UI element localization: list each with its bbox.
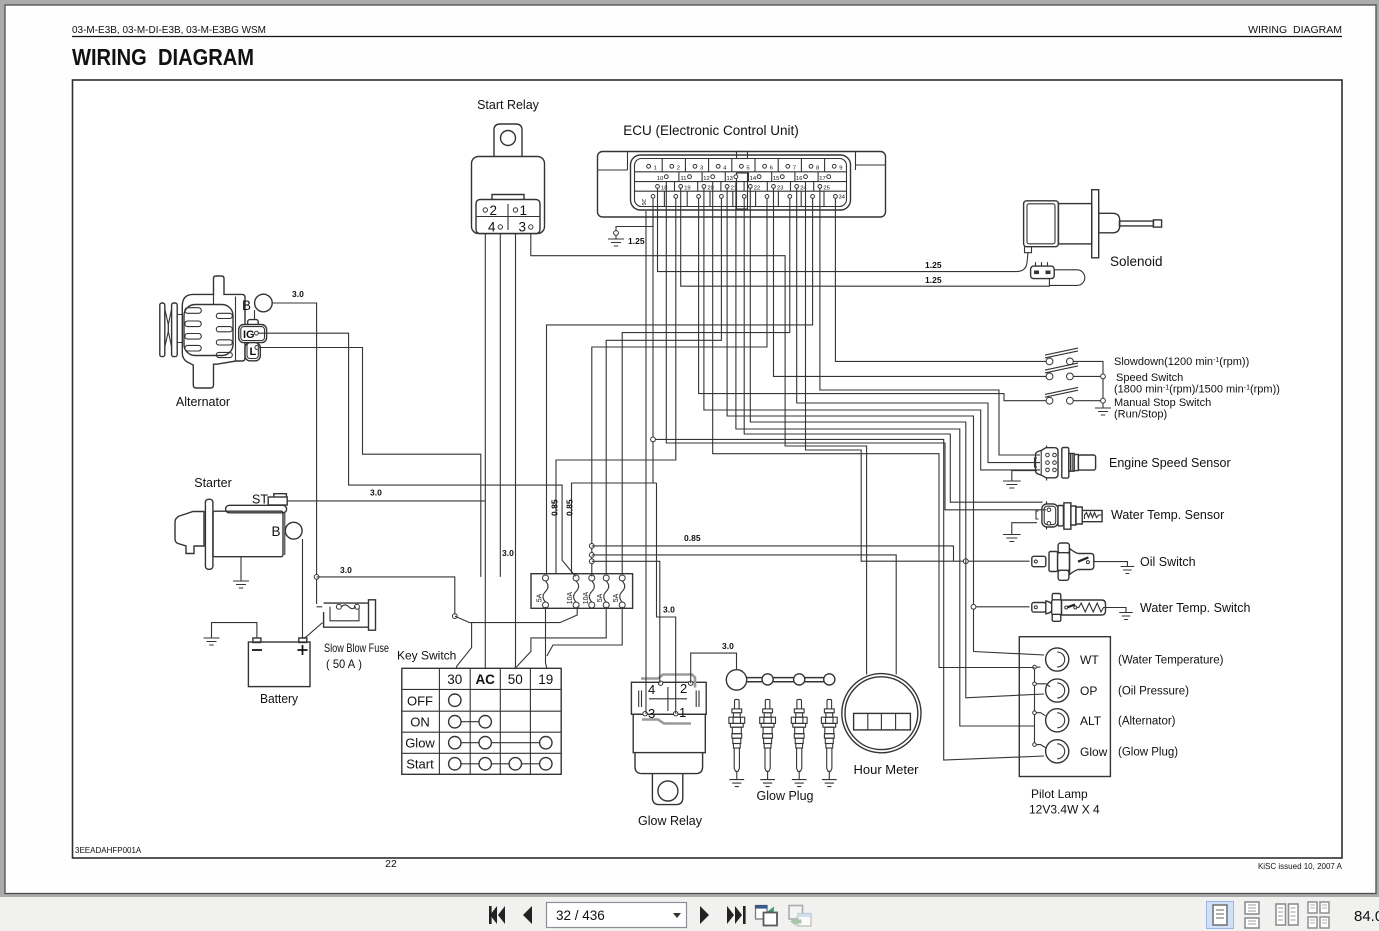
- junction oil node: [963, 559, 968, 564]
- svg-text:(Water Temperature): (Water Temperature): [1118, 655, 1224, 667]
- battery: [248, 638, 310, 706]
- junction ecu26 node: [651, 437, 656, 442]
- first-page button: [490, 906, 505, 924]
- terminal B: [255, 294, 273, 312]
- ground engine speed sensor: [1003, 481, 1021, 488]
- svg-text:( 50 A ): ( 50 A ): [326, 657, 362, 671]
- wire battery plus up: [302, 539, 304, 638]
- pilot lamp at y=751.3: [1046, 740, 1069, 763]
- wire ECU r10 to WTS2: [666, 182, 1046, 510]
- wire glow relay 1 up: [657, 483, 676, 714]
- wire oil 0.85 run: [592, 546, 954, 561]
- header rule: [72, 36, 1342, 38]
- wire fuse4 out: [516, 607, 606, 667]
- svg-text:03-M-E3B, 03-M-DI-E3B, 03-M-E3: 03-M-E3B, 03-M-DI-E3B, 03-M-E3BG WSM: [72, 24, 266, 36]
- next-page button: [700, 906, 709, 924]
- wire WTS ground: [1012, 523, 1037, 535]
- layout: two-up: [1276, 904, 1298, 925]
- svg-text:9: 9: [839, 166, 842, 172]
- svg-text:19: 19: [538, 672, 553, 687]
- oil switch: [1032, 543, 1196, 580]
- svg-text:10A: 10A: [567, 591, 574, 604]
- svg-text:Slow Blow Fuse: Slow Blow Fuse: [324, 641, 389, 655]
- page number box: [547, 903, 687, 928]
- svg-text:(Oil Pressure): (Oil Pressure): [1118, 686, 1189, 698]
- wire ECU31 to fuse3 node: [592, 198, 767, 576]
- svg-text:4: 4: [488, 220, 496, 235]
- wire battery minus to ground: [212, 623, 257, 638]
- layout: continuous: [1245, 902, 1259, 928]
- wire alt B to battery junction: [272, 303, 316, 604]
- wire ESS ground: [1012, 471, 1037, 481]
- svg-text:0.85: 0.85: [565, 499, 575, 516]
- wire ECU30 to WTS1: [744, 198, 1042, 502]
- toolbar background: [0, 897, 1379, 931]
- svg-text:Hour Meter: Hour Meter: [853, 762, 919, 777]
- ground glow plug 736.8: [729, 780, 744, 787]
- svg-text:50: 50: [508, 672, 523, 687]
- svg-text:(Alternator): (Alternator): [1118, 716, 1176, 728]
- glow plug at x=767.6: [765, 699, 770, 709]
- wire key30 drop: [455, 607, 577, 623]
- svg-text:30: 30: [447, 672, 462, 687]
- svg-text:5A: 5A: [613, 593, 620, 602]
- svg-text:Glow Relay: Glow Relay: [638, 814, 703, 828]
- wire starter ground: [240, 557, 242, 581]
- svg-text:Engine Speed Sensor: Engine Speed Sensor: [1109, 456, 1231, 470]
- engine speed sensor: [1035, 446, 1231, 481]
- svg-text:1: 1: [679, 705, 686, 720]
- terminal ST: [268, 497, 287, 505]
- prev-page button: [523, 906, 532, 924]
- svg-text:B: B: [242, 298, 251, 313]
- svg-text:3.0: 3.0: [663, 605, 675, 615]
- svg-text:KiSC issued 10, 2007 A: KiSC issued 10, 2007 A: [1258, 862, 1343, 871]
- fuse box (5A 10A 10A 5A 5A): [531, 574, 633, 609]
- svg-text:7: 7: [793, 166, 796, 172]
- svg-text:17: 17: [819, 176, 825, 182]
- svg-text:Glow Plug: Glow Plug: [757, 789, 814, 803]
- wire fuse5 out: [547, 607, 622, 656]
- svg-text:Manual Stop Switch: Manual Stop Switch: [1114, 397, 1211, 409]
- svg-text:ON: ON: [410, 715, 430, 730]
- svg-text:12V3.4W X 4: 12V3.4W X 4: [1029, 803, 1100, 817]
- junction sw common a: [1101, 374, 1106, 379]
- svg-text:14: 14: [750, 176, 757, 182]
- wire tap to hour meter: [592, 555, 896, 675]
- svg-text:(Run/Stop): (Run/Stop): [1114, 409, 1167, 421]
- svg-text:B: B: [272, 524, 281, 539]
- junction key30 node: [452, 614, 457, 619]
- glow plug at x=736.8: [735, 699, 740, 709]
- wire slowdown to common: [1073, 361, 1103, 408]
- svg-text:6: 6: [770, 166, 773, 172]
- glow plug at x=799.2: [797, 699, 802, 709]
- pilot lamp at y=720.3: [1046, 709, 1069, 732]
- svg-text:Battery: Battery: [260, 692, 299, 706]
- wire WT switch to ground: [1106, 608, 1127, 613]
- svg-text:13: 13: [726, 176, 732, 182]
- svg-text:8: 8: [816, 166, 819, 172]
- wire battery node to key30: [317, 577, 455, 616]
- slow blow fuse F50: [324, 600, 390, 671]
- wire ECU34 slowdown: [835, 198, 1046, 361]
- svg-text:WIRING DIAGRAM: WIRING DIAGRAM: [1248, 24, 1342, 36]
- svg-text:1.25: 1.25: [628, 236, 645, 246]
- svg-text:3: 3: [519, 220, 527, 235]
- terminal B: [285, 522, 302, 539]
- wire battery plus to fuse diagonal: [302, 623, 324, 639]
- ECU (Electronic Control Unit) U1: [598, 123, 886, 217]
- svg-text:Alternator: Alternator: [176, 395, 230, 409]
- svg-text:Water Temp. Switch: Water Temp. Switch: [1140, 601, 1250, 615]
- wire starter ST to relay2: [287, 500, 485, 502]
- junction node f3c: [589, 559, 594, 564]
- wire relay pin2 to keyAC: [484, 234, 486, 668]
- svg-text:22: 22: [385, 858, 397, 870]
- manual stop switch: [1045, 387, 1078, 404]
- wire oil switch to ground: [1094, 562, 1128, 567]
- junction node f3a: [589, 544, 594, 549]
- wire relay pin1 to key50: [514, 234, 516, 668]
- svg-text:16: 16: [796, 176, 802, 182]
- wire ECU q20 to ESS3: [704, 188, 1040, 470]
- wire ECU q21 to WT switch and lamp: [727, 188, 1044, 655]
- svg-text:Speed Switch: Speed Switch: [1116, 372, 1183, 384]
- prev-view button: [756, 906, 768, 920]
- wire ECU27 fuse drop: [556, 198, 676, 574]
- wire manual stop to common: [1073, 400, 1103, 402]
- wire relay pin4 stub: [499, 234, 501, 577]
- svg-text:2: 2: [680, 681, 687, 696]
- svg-text:26: 26: [640, 199, 646, 205]
- wire alt L down: [259, 348, 481, 577]
- svg-text:10: 10: [657, 176, 663, 182]
- wire ECU18 to solenoid: [658, 188, 1029, 272]
- svg-text:0.85: 0.85: [684, 533, 701, 543]
- ground glow plug 799.2: [792, 780, 807, 787]
- ground ECU: [608, 239, 624, 246]
- svg-text:Start Relay: Start Relay: [477, 98, 540, 112]
- svg-text:3: 3: [648, 706, 655, 721]
- ground glow plug 829.3: [822, 780, 837, 787]
- junction sw common b: [1101, 398, 1106, 403]
- svg-text:ECU (Electronic Control Unit): ECU (Electronic Control Unit): [623, 123, 799, 138]
- diagram frame: [73, 80, 1343, 858]
- svg-text:(Glow Plug): (Glow Plug): [1118, 747, 1178, 759]
- svg-text:Slowdown(1200 min-1(rpm)): Slowdown(1200 min-1(rpm)): [1114, 356, 1249, 368]
- svg-text:Glow: Glow: [405, 736, 435, 751]
- junction battery node: [314, 575, 319, 580]
- wire ECU26 to Glow lamp: [653, 439, 1044, 760]
- svg-text:1.25: 1.25: [925, 275, 942, 285]
- svg-text:22: 22: [754, 186, 760, 192]
- svg-text:1: 1: [654, 166, 657, 172]
- glow plug at x=829.3: [827, 699, 832, 709]
- wire glow relay 2 to plugs: [691, 653, 737, 683]
- svg-text:Glow: Glow: [1080, 745, 1108, 759]
- key switch: [397, 649, 561, 775]
- svg-text:Pilot Lamp: Pilot Lamp: [1031, 787, 1088, 801]
- speed switch: [1045, 363, 1078, 380]
- svg-text:OFF: OFF: [407, 694, 433, 709]
- svg-text:5A: 5A: [537, 593, 544, 602]
- svg-text:2: 2: [490, 203, 498, 218]
- solenoid connector: [1031, 266, 1055, 279]
- svg-text:4: 4: [648, 682, 655, 697]
- svg-text:Water Temp. Sensor: Water Temp. Sensor: [1111, 508, 1224, 522]
- solenoid: [1024, 190, 1163, 286]
- ground oil switch: [1121, 567, 1135, 574]
- water temp sensor: [1036, 501, 1224, 529]
- svg-text:AC: AC: [475, 672, 495, 687]
- svg-text:3.0: 3.0: [340, 565, 352, 575]
- svg-text:(1800 min-1(rpm)/1500 min-1(rp: (1800 min-1(rpm)/1500 min-1(rpm)): [1114, 384, 1280, 396]
- wire ECU33 to fuse1: [547, 198, 813, 574]
- junction node f3b: [589, 553, 594, 558]
- hour meter: [842, 674, 921, 777]
- alternator: [160, 276, 272, 409]
- next-view button (disabled): [789, 906, 803, 920]
- wire ECU19 to solenoid low: [681, 188, 1050, 286]
- svg-text:34: 34: [839, 195, 846, 201]
- layout: single page (active): [1207, 902, 1234, 929]
- svg-text:11: 11: [680, 176, 686, 182]
- glow plugs (x4): [726, 670, 837, 803]
- svg-text:3.0: 3.0: [502, 548, 514, 558]
- svg-text:23: 23: [777, 186, 783, 192]
- svg-text:32 / 436: 32 / 436: [556, 908, 605, 923]
- start relay: [472, 98, 545, 235]
- wire relay pin3 to hour meter: [531, 234, 867, 675]
- svg-text:3EEADAHFP001A: 3EEADAHFP001A: [75, 846, 142, 855]
- svg-text:3.0: 3.0: [292, 289, 304, 299]
- ground glow plug 767.6: [760, 780, 775, 787]
- wire alt IG down: [258, 333, 575, 576]
- ground switch common: [1095, 408, 1111, 415]
- wire fuse feed: [317, 606, 323, 608]
- wire ECU q25 to ESS1: [820, 188, 1040, 455]
- slowdown switch: [1045, 348, 1078, 365]
- svg-text:3.0: 3.0: [722, 641, 734, 651]
- svg-text:Start: Start: [406, 757, 434, 772]
- water temp switch: [1032, 594, 1251, 622]
- ground starter: [233, 581, 249, 588]
- wire oil switch feed: [806, 182, 1030, 561]
- svg-text:WIRING DIAGRAM: WIRING DIAGRAM: [72, 44, 254, 70]
- svg-text:25: 25: [823, 186, 829, 192]
- wire ECU q22 to OP lamp: [750, 188, 1044, 698]
- wire ECU q23 speed: [774, 188, 1047, 376]
- svg-text:Oil Switch: Oil Switch: [1140, 555, 1196, 569]
- svg-text:12: 12: [703, 176, 709, 182]
- svg-text:5A: 5A: [597, 593, 604, 602]
- ground water temp switch: [1119, 613, 1133, 620]
- svg-text:3.0: 3.0: [370, 488, 382, 498]
- pilot lamp assembly: [1019, 637, 1110, 777]
- svg-text:Solenoid: Solenoid: [1110, 254, 1163, 269]
- ground battery: [204, 638, 220, 645]
- svg-text:2: 2: [677, 166, 680, 172]
- starter: [175, 476, 302, 569]
- wire ECU r13 to lamp bus2: [736, 182, 1035, 726]
- wire ECU26 fuse drop: [572, 483, 657, 574]
- svg-text:1: 1: [520, 203, 528, 218]
- pilot lamp at y=659.5: [1046, 648, 1069, 671]
- last-page button: [727, 906, 742, 924]
- pilot lamp at y=690.5: [1046, 679, 1069, 702]
- wire fuse1 to key19: [546, 607, 547, 669]
- wire ECU28 manual stop: [699, 198, 1047, 401]
- glow relay: [631, 675, 706, 829]
- layout: two-up continuous: [1308, 902, 1329, 928]
- wire key30 column: [457, 623, 472, 669]
- wire ECU q24 to ESS2: [797, 188, 1040, 463]
- wire ECU29 to fuse4: [606, 198, 721, 574]
- wire ECU26 vertical: [652, 211, 654, 483]
- wire glow relay 3 to ECU: [645, 211, 647, 714]
- svg-text:1.25: 1.25: [925, 260, 942, 270]
- wire ECU26 ground: [616, 198, 653, 231]
- wire speed to common: [1073, 375, 1103, 377]
- svg-text:Key Switch: Key Switch: [397, 649, 456, 663]
- ground water temp sensor: [1003, 535, 1021, 542]
- wire tap to glow relay 4: [592, 561, 660, 683]
- svg-text:19: 19: [684, 186, 690, 192]
- svg-text:15: 15: [773, 176, 779, 182]
- svg-text:ST: ST: [252, 493, 268, 507]
- wire WT switch branch: [974, 606, 1030, 608]
- svg-text:5: 5: [746, 166, 749, 172]
- svg-text:84.0: 84.0: [1354, 908, 1379, 925]
- svg-text:WT: WT: [1080, 653, 1099, 667]
- svg-text:3: 3: [700, 166, 703, 172]
- svg-text:0.85: 0.85: [550, 499, 560, 516]
- IG / L connector: [248, 320, 259, 327]
- svg-text:Starter: Starter: [194, 476, 232, 490]
- svg-text:24: 24: [800, 186, 807, 192]
- wire ECU32 to fuse5: [622, 198, 790, 574]
- svg-text:OP: OP: [1080, 684, 1097, 698]
- svg-text:IG: IG: [243, 329, 255, 341]
- svg-text:ALT: ALT: [1080, 714, 1102, 728]
- svg-text:10A: 10A: [583, 591, 590, 604]
- junction wts node: [971, 604, 976, 609]
- wire ECU r12 to lamp bus: [713, 182, 1035, 668]
